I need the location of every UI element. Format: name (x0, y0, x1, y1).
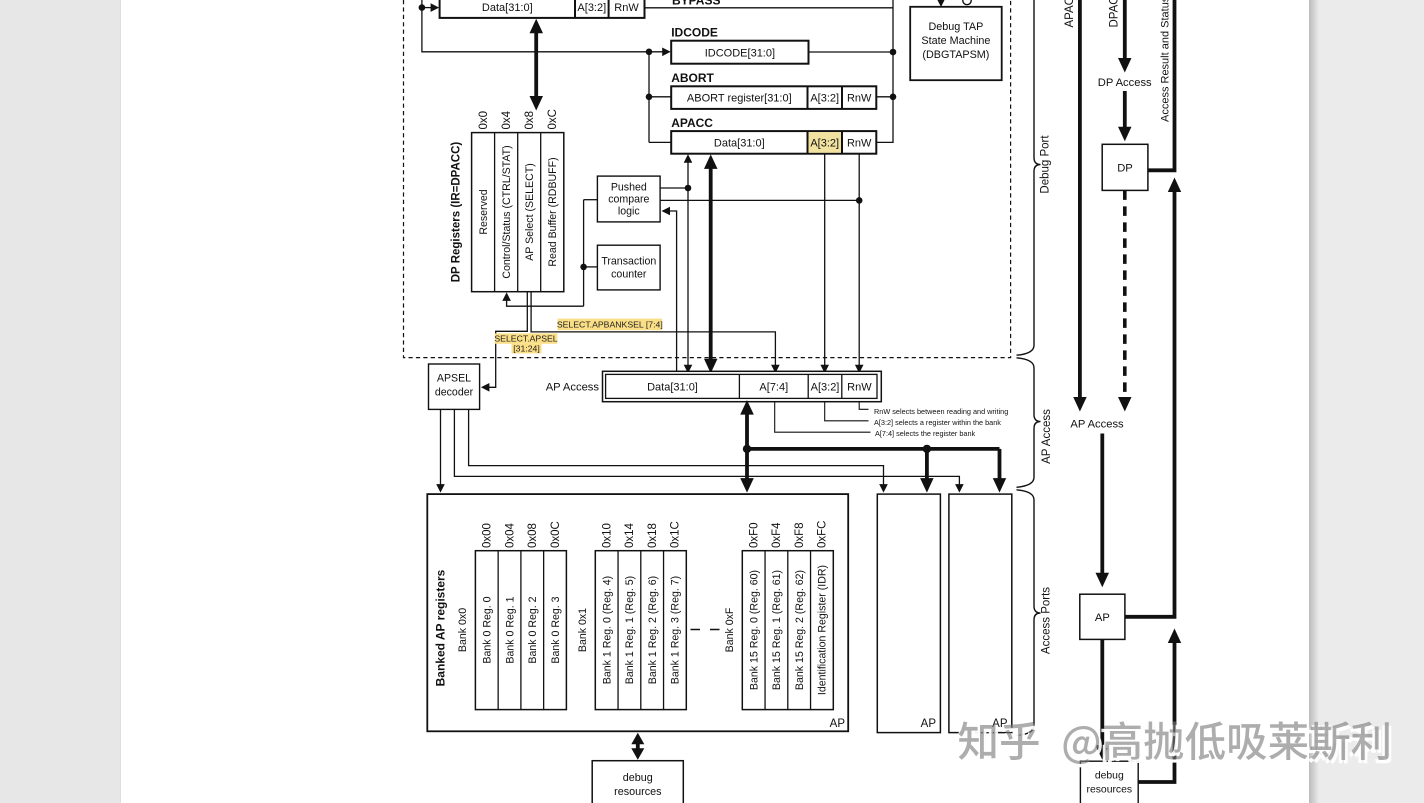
wire junction down-left then right to IDCODE (422, 8, 663, 52)
svg-text:Banked AP registers: Banked AP registers (434, 569, 448, 686)
svg-text:RnW: RnW (847, 381, 872, 393)
svg-text:Access Result and Status: Access Result and Status (1160, 0, 1172, 122)
thick dashed wire DP to AP Access point (1123, 190, 1127, 396)
svg-text:Bank 0x0: Bank 0x0 (457, 608, 469, 652)
thick wire down into Banked AP registers (745, 449, 749, 486)
svg-text:0x04: 0x04 (504, 522, 516, 548)
watermark 知乎 @高抛低吸莱斯利 (956, 721, 1391, 767)
svg-text:Bank 0 Reg. 2: Bank 0 Reg. 2 (527, 596, 539, 663)
callout RnW selects between reading and writing (859, 402, 868, 410)
node bus-ABORT junction (890, 94, 897, 101)
svg-text:Debug TAP: Debug TAP (928, 21, 983, 33)
thick wire access result up from DP to top (1148, 0, 1175, 170)
wire APSEL decoder select2 to AP block 3 (454, 409, 959, 487)
svg-text:RnW: RnW (847, 93, 872, 105)
block AP (right column) (1080, 594, 1125, 639)
node transaction counter tap (580, 264, 587, 271)
node IDCODE feed junction (646, 49, 653, 56)
clock input circle on DBGTAPSM top (963, 0, 971, 5)
svg-text:0x4: 0x4 (501, 110, 513, 129)
svg-text:Debug Port: Debug Port (1040, 135, 1052, 194)
page shadow on right gutter (1309, 0, 1319, 803)
svg-text:Reserved: Reserved (478, 189, 490, 234)
svg-text:0xF4: 0xF4 (771, 522, 783, 548)
right gray gutter (1309, 0, 1424, 803)
svg-text:RnW: RnW (847, 138, 872, 150)
register APACC box (Data[31:0] | A[3:2] highlighted | RnW) (671, 131, 876, 154)
table Bank 0xF registers (742, 551, 833, 710)
svg-text:SELECT.APSEL: SELECT.APSEL (494, 334, 557, 344)
svg-text:A[3:2]: A[3:2] (811, 381, 840, 393)
node bus-IDCODE junction (890, 49, 897, 56)
svg-text:Bank 0 Reg. 0: Bank 0 Reg. 0 (482, 596, 494, 663)
wire right vertical bus from BYPASS down to APACC (892, 0, 894, 143)
wire bidirectional thin Data line APACC-APAccess (687, 157, 689, 370)
svg-text:ABORT: ABORT (671, 71, 714, 85)
svg-text:APSEL: APSEL (437, 373, 471, 385)
node ABORT feed junction (646, 94, 653, 101)
svg-text:Bank 1 Reg. 2 (Reg. 6): Bank 1 Reg. 2 (Reg. 6) (647, 576, 659, 684)
wire left rail down from IDCODE feed (648, 52, 650, 143)
thick wire DP Access into DP block (1123, 91, 1127, 128)
node AP2 branch (923, 445, 931, 453)
wire APACC left feed (649, 141, 671, 143)
block debug resources (centre) (592, 761, 683, 803)
thick wire AP down to debug resources (1100, 639, 1104, 746)
svg-text:0x14: 0x14 (624, 522, 636, 548)
block Transaction counter (597, 245, 660, 290)
svg-text:AP Access: AP Access (546, 382, 600, 394)
wire APSEL decoder select0 to Banked AP registers (440, 409, 442, 487)
svg-text:BYPASS: BYPASS (672, 0, 720, 8)
svg-text:Pushed: Pushed (611, 182, 647, 194)
svg-text:DP: DP (1117, 162, 1133, 174)
svg-text:ABORT register[31:0]: ABORT register[31:0] (687, 93, 792, 105)
svg-text:debug: debug (623, 772, 653, 784)
thick wire down into AP block 3 (998, 449, 1002, 486)
svg-text:(DBGTAPSM): (DBGTAPSM) (922, 49, 989, 61)
svg-text:IDCODE[31:0]: IDCODE[31:0] (705, 47, 775, 59)
svg-text:DPACC: DPACC (1109, 0, 1121, 28)
svg-text:0xFC: 0xFC (817, 521, 829, 548)
svg-text:RnW: RnW (614, 2, 639, 14)
svg-text:Bank 15 Reg. 2 (Reg. 62): Bank 15 Reg. 2 (Reg. 62) (794, 570, 806, 690)
svg-text:Bank 0 Reg. 3: Bank 0 Reg. 3 (550, 596, 562, 663)
label SELECT.APSEL [31:24] highlighted (495, 333, 558, 343)
svg-text:A[7:4]: A[7:4] (759, 381, 788, 393)
wire AP-access readback into pushed-compare with left arrow (662, 207, 671, 216)
svg-text:Bank 0xF: Bank 0xF (724, 607, 736, 652)
svg-text:Read Buffer (RDBUFF): Read Buffer (RDBUFF) (547, 157, 559, 266)
svg-text:APACC: APACC (1064, 0, 1076, 28)
wire into ABORT left edge (649, 96, 671, 98)
svg-text:AP Select (SELECT): AP Select (SELECT) (524, 163, 536, 261)
brace Access Ports (1017, 490, 1041, 736)
thick wire AP result up to DP junction (1125, 191, 1175, 617)
svg-text:A[3:2] selects a register with: A[3:2] selects a register within the ban… (874, 418, 1001, 427)
wire control rail to CTRL/STAT with up arrow (507, 296, 584, 306)
arrow into Debug TAP state machine top (940, 0, 942, 2)
node data line tap (685, 185, 692, 192)
svg-text:Bank 15 Reg. 0 (Reg. 60): Bank 15 Reg. 0 (Reg. 60) (748, 570, 760, 690)
block AP 3 (empty) (949, 494, 1012, 732)
thick wire debug resources result up to AP junction (1138, 642, 1174, 782)
svg-text:0x1C: 0x1C (670, 521, 682, 548)
svg-text:AP Access: AP Access (1041, 409, 1053, 464)
wire arrow into DPACC Data left (422, 7, 432, 9)
svg-text:Control/Status (CTRL/STAT): Control/Status (CTRL/STAT) (501, 145, 513, 278)
arrow into IDCODE left edge (662, 48, 671, 57)
svg-text:logic: logic (618, 206, 640, 218)
svg-text:debug: debug (1095, 771, 1124, 782)
block Pushed compare logic (597, 176, 660, 222)
wire IDCODE right to bus (809, 51, 894, 53)
svg-text:Bank 1 Reg. 3 (Reg. 7): Bank 1 Reg. 3 (Reg. 7) (670, 576, 682, 684)
svg-text:[31:24]: [31:24] (513, 344, 540, 354)
svg-text:resources: resources (1086, 785, 1132, 796)
block Debug TAP State Machine (DBGTAPSM) (910, 7, 1002, 80)
svg-text:Data[31:0]: Data[31:0] (482, 2, 533, 14)
svg-text:0x18: 0x18 (647, 523, 659, 548)
thick wire up-arrow into AP Access Data bottom (740, 400, 754, 415)
wire into transaction counter left (584, 266, 598, 268)
label SELECT.APBANKSEL [7:4] highlighted (558, 319, 663, 331)
svg-text:A[3:2]: A[3:2] (810, 138, 839, 150)
wire pushed-compare left to control rail (584, 199, 598, 201)
svg-text:0xC: 0xC (547, 109, 559, 129)
svg-text:0x0C: 0x0C (550, 521, 562, 548)
wire RnW line APACC to APAccess (858, 154, 860, 370)
svg-text:counter: counter (611, 268, 647, 280)
dashed boundary box of serial engine / DP registers section (404, 0, 1011, 358)
svg-text:0x0: 0x0 (478, 111, 490, 130)
svg-text:A[3:2]: A[3:2] (577, 2, 606, 14)
register AP Access inner (Data[31:0] | A[7:4] | A[3:2] | RnW) (606, 374, 877, 398)
svg-text:resources: resources (614, 786, 662, 798)
svg-text:DP Access: DP Access (1098, 77, 1152, 89)
brace Debug Port (1017, 0, 1041, 355)
svg-text:0x8: 0x8 (524, 111, 536, 130)
svg-text:Transaction: Transaction (601, 255, 656, 267)
wire pushed-compare to RnW line (660, 199, 859, 201)
svg-text:Bank 1 Reg. 1 (Reg. 5): Bank 1 Reg. 1 (Reg. 5) (624, 576, 636, 684)
block AP 2 (empty) (877, 494, 940, 732)
block DP (1102, 144, 1148, 190)
thick wire DPACC request down to DP Access (1123, 0, 1127, 59)
wire DPACC RnW to right vertical bus (645, 7, 894, 9)
svg-text:A[3:2]: A[3:2] (810, 93, 839, 105)
svg-text:AP: AP (921, 718, 937, 730)
thick wire AP Access down into AP block (1100, 434, 1104, 574)
svg-text:AP: AP (830, 718, 846, 730)
thick wire AP bus horizontal (747, 447, 1000, 451)
table DP Registers (IR=DPACC) frame (472, 133, 564, 292)
svg-text:0x08: 0x08 (527, 523, 539, 548)
svg-text:IDCODE: IDCODE (671, 26, 718, 40)
svg-text:0x00: 0x00 (482, 523, 494, 548)
wire bidirectional thick Data bus APACC-APAccess (709, 162, 713, 364)
svg-text:SELECT.APBANKSEL [7:4]: SELECT.APBANKSEL [7:4] (557, 320, 663, 330)
svg-text:0x10: 0x10 (601, 523, 613, 548)
table Bank 0x1 registers (595, 551, 686, 710)
table Bank 0x0 registers (475, 551, 566, 710)
svg-text:decoder: decoder (435, 387, 474, 399)
left gray gutter (0, 0, 121, 803)
block APSEL decoder (429, 364, 480, 409)
node RnW line tap (856, 197, 863, 204)
node scan-in junction (419, 4, 426, 11)
register AP Access outer frame (603, 371, 882, 401)
svg-text:Data[31:0]: Data[31:0] (647, 381, 698, 393)
wire control rail vertical (583, 200, 585, 307)
svg-text:AP Access: AP Access (1070, 418, 1124, 430)
callout A[3:2] selects a register within the bank (825, 402, 869, 421)
register DPACC scan chain box (Data[31:0] | A[3:2] | RnW), top cut off (440, 0, 645, 18)
ellipsis dashes between banks (691, 629, 721, 631)
node AP distribution junction (743, 445, 751, 453)
svg-text:Access Ports: Access Ports (1041, 587, 1053, 654)
svg-text:AP: AP (1095, 612, 1110, 624)
svg-text:Data[31:0]: Data[31:0] (714, 138, 765, 150)
svg-text:Identification Register (IDR): Identification Register (IDR) (817, 565, 829, 695)
svg-text:A[7:4] selects the register ba: A[7:4] selects the register bank (875, 429, 976, 438)
wire A[3:2] line APACC to APAccess (824, 154, 826, 370)
wire scan-in from top into node (421, 0, 423, 8)
svg-text:State Machine: State Machine (921, 35, 990, 47)
wire pushed-compare to data line node (660, 187, 688, 189)
svg-text:APACC: APACC (671, 116, 713, 130)
svg-text:0xF0: 0xF0 (748, 522, 760, 548)
thick wire down into AP block 2 (925, 449, 929, 486)
svg-text:compare: compare (608, 194, 649, 206)
register ABORT box (ABORT register[31:0] | A[3:2] | RnW) (671, 86, 876, 109)
register IDCODE box (671, 41, 808, 64)
svg-text:Bank 15 Reg. 1 (Reg. 61): Bank 15 Reg. 1 (Reg. 61) (771, 570, 783, 690)
callout A[7:4] selects the register bank (775, 402, 871, 433)
svg-text:DP Registers (IR=DPACC): DP Registers (IR=DPACC) (450, 142, 462, 283)
block Banked AP registers frame (427, 494, 848, 731)
wire SELECT.APSEL from AP Select column to APSEL decoder (489, 292, 527, 388)
thick wire APACC request down to AP Access point (1078, 0, 1082, 398)
svg-text:Bank 1 Reg. 0 (Reg. 4): Bank 1 Reg. 0 (Reg. 4) (601, 576, 613, 684)
svg-text:Bank 0x1: Bank 0x1 (577, 608, 589, 652)
block debug resources (right) (1080, 761, 1138, 803)
wire APSEL decoder select1 to AP block 2 (469, 409, 884, 487)
svg-text:0xF8: 0xF8 (794, 522, 806, 548)
svg-text:Bank 0 Reg. 1: Bank 0 Reg. 1 (504, 596, 516, 663)
brace AP Access (1017, 358, 1041, 488)
wire APACC RnW right to bus corner (876, 141, 893, 143)
thick bidirectional bus arrow below DPACC register (534, 28, 538, 99)
thick bidirectional arrow Banked AP to debug resources (636, 742, 640, 750)
svg-text:RnW selects between reading an: RnW selects between reading and writing (874, 407, 1008, 416)
wire SELECT.APBANKSEL from AP Select column to APAccess A[7:4] (531, 292, 775, 370)
wire ABORT RnW right to bus (876, 96, 893, 98)
